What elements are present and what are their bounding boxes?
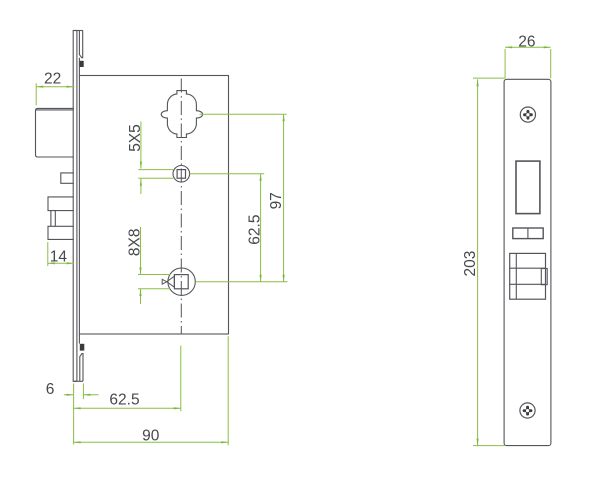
deadbolt inner horizontals — [510, 268, 546, 284]
dimension texts left view — [44, 71, 285, 445]
8x8 hole circle — [168, 268, 195, 295]
green dimensions right view — [473, 47, 551, 445]
5x5 center extension right — [190, 173, 264, 175]
dim 5X5 leader line — [140, 122, 142, 195]
8x8 edge extension lines — [138, 275, 170, 289]
faceplate back plate top segment — [79, 31, 82, 58]
dim 6 extension lines — [74, 384, 84, 445]
bottom mounting pin (black) — [80, 344, 85, 351]
deadbolt stem — [51, 211, 55, 227]
dim 6 line pieces — [64, 394, 99, 396]
dim 26 arrows — [505, 46, 551, 48]
dim 26 extension lines — [505, 49, 551, 78]
faceplate front plate — [73, 31, 77, 382]
dim 8X8 leader line — [140, 227, 142, 304]
deadbolt inner vertical — [515, 253, 517, 299]
faceplate top cap line — [73, 30, 83, 32]
dim 5X5 arrows — [140, 162, 142, 186]
dim 203 top extension — [473, 77, 505, 79]
dim 62.5 vertical line — [260, 174, 262, 282]
top screw phillips cross — [523, 110, 533, 120]
dim 8X8 arrows — [139, 267, 141, 296]
deadbolt right tab — [541, 269, 547, 285]
svg-text:90: 90 — [142, 428, 160, 445]
centerline extension green — [180, 346, 182, 412]
8x8 center extension right — [195, 281, 287, 283]
dim 6 arrows — [67, 394, 91, 396]
arrows left view — [36, 86, 285, 444]
deadlatch divider — [527, 228, 529, 239]
dim 22 arrows — [36, 86, 73, 88]
bottom screw circle — [520, 403, 535, 418]
dim 62.5 bottom arrows — [74, 407, 181, 409]
dim 14 arrows — [48, 262, 74, 264]
vertical centerline (dash-dot) — [180, 79, 182, 335]
dim 203 bottom extension — [473, 445, 506, 447]
dim 62.5 bottom line — [74, 407, 181, 409]
dim 97 vertical line — [283, 114, 285, 281]
svg-text:22: 22 — [44, 71, 61, 88]
dim 90 right extension — [227, 336, 229, 445]
lock case body — [79, 76, 228, 335]
svg-text:203: 203 — [462, 251, 479, 277]
top screw circle — [520, 107, 535, 122]
dim 22 line — [36, 86, 74, 88]
svg-text:8X8: 8X8 — [127, 229, 144, 257]
8x8 square hole — [174, 275, 188, 289]
dim 203 line — [477, 79, 479, 445]
deadlatch opening — [513, 228, 543, 239]
dim 14 extension line — [47, 242, 49, 266]
faceplate back plate bottom segment — [80, 354, 83, 382]
latch opening — [516, 161, 540, 214]
cross center extension right — [200, 113, 287, 115]
dim 90 arrows — [74, 441, 229, 443]
svg-text:14: 14 — [50, 248, 68, 265]
deadbolt head top slab — [48, 197, 74, 211]
faceplate outline — [504, 79, 551, 445]
svg-text:97: 97 — [268, 192, 285, 209]
dim 62.5 vertical arrows — [260, 174, 262, 282]
latch bolt inner line — [36, 109, 74, 111]
top mounting pin (black) — [80, 61, 84, 67]
5x5 square hole — [177, 170, 185, 179]
auxiliary tab — [61, 173, 74, 183]
svg-text:26: 26 — [518, 33, 535, 50]
dim 97 arrows — [283, 114, 285, 281]
bottom screw phillips cross — [523, 406, 533, 416]
dim 26 line — [505, 46, 551, 48]
deadbolt outline — [510, 253, 546, 299]
dim 90 line — [74, 441, 229, 443]
5x5 edge extension lines — [138, 170, 173, 179]
svg-text:5X5: 5X5 — [127, 124, 144, 152]
deadbolt head bottom slab — [48, 226, 74, 239]
dim 14 line — [48, 262, 74, 264]
svg-text:62.5: 62.5 — [247, 215, 264, 245]
dim 22 extension line — [35, 83, 37, 105]
dim 203 arrows — [477, 79, 479, 445]
case front edge line — [78, 58, 80, 344]
svg-text:6: 6 — [46, 381, 55, 398]
latch bolt — [36, 108, 74, 157]
spindle follower cross hole — [161, 91, 202, 138]
5x5 spindle hole circle — [173, 166, 190, 183]
faceplate bottom cap line — [73, 380, 83, 382]
8x8 left marker (bowtie) — [162, 276, 174, 287]
svg-text:62.5: 62.5 — [109, 391, 139, 408]
